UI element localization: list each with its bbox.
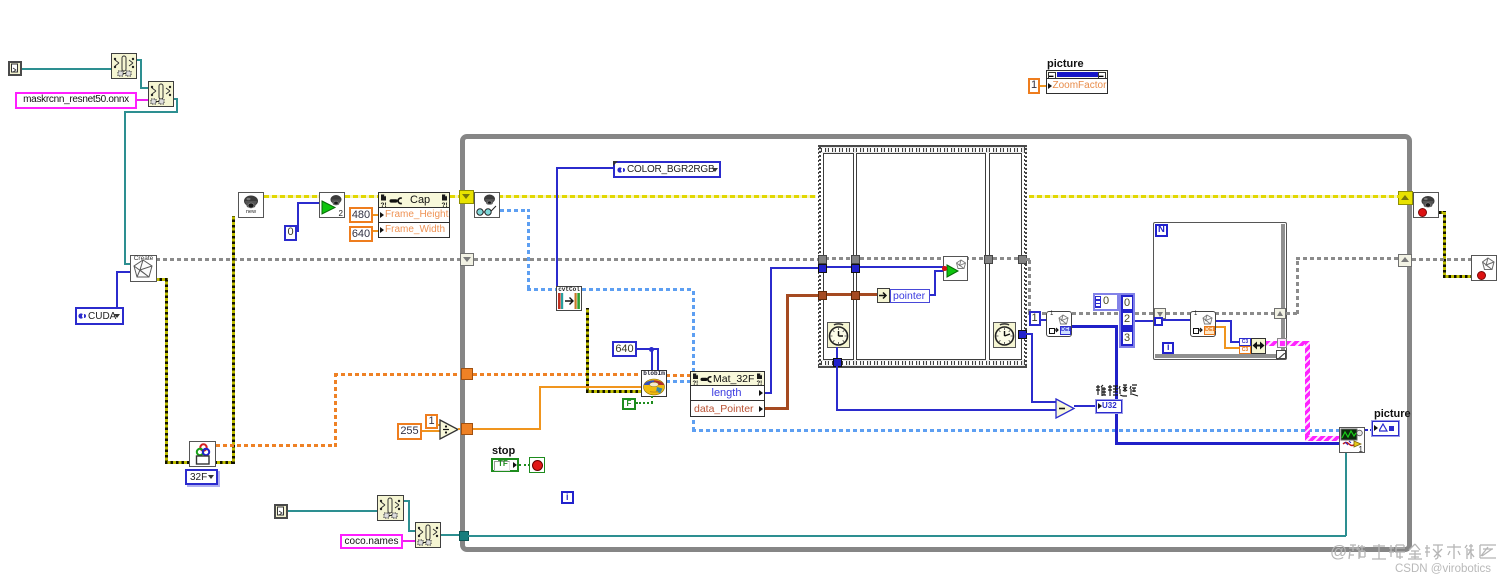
wire: blue subtract to U32 (1074, 405, 1096, 407)
array index constant 0 (1093, 293, 1119, 311)
wire: gray inside for loop (1166, 312, 1276, 315)
wire: dark-yellow R1 to R2 (1439, 211, 1446, 214)
indicator pointer (890, 289, 930, 303)
tunnel: teal in (459, 531, 469, 541)
film left serration (818, 146, 820, 366)
camera glasses (read) node (474, 192, 500, 218)
label 推理速度 (inference speed) (1094, 384, 1140, 397)
wire: blue array to for loop tunnel (1135, 320, 1155, 322)
enum constant COLOR_BGR2RGB (613, 161, 721, 178)
wire: teal from B2 down-left to Create (174, 98, 178, 100)
wire: gray error across sequence (825, 257, 1020, 260)
wire: pink to picture draw (1287, 341, 1308, 346)
wire: orange 480 to Frame_Height (373, 214, 380, 216)
wire: teal file to B3 (288, 510, 377, 512)
sequence frame 3 (989, 153, 1022, 361)
stop button (529, 457, 545, 473)
sequence frame 1 (823, 153, 855, 361)
clock node (frame 3) (993, 322, 1016, 348)
wire: yellow inside loop left segment (474, 195, 816, 198)
tunnel: blue hollow into for loop (1154, 317, 1163, 326)
picture draw node (1339, 427, 1365, 453)
wire: gray DEL1 out to for loop (1072, 312, 1156, 315)
wire: gray error inside loop to sequence (474, 258, 818, 261)
clock node (frame 1) (827, 322, 850, 348)
numeric constant 1 (zoom) (1028, 78, 1040, 94)
wire: dark-yellow cvtCol down to blob node (586, 308, 589, 392)
tunnel: yellow out (right) (1398, 191, 1413, 205)
tunnel: gray on seq borders (818, 255, 827, 264)
camera release node R1 (1413, 192, 1439, 218)
flat sequence structure (film strip) (815, 143, 1029, 370)
wire: yellow Cap to loop tunnel (450, 195, 463, 198)
wire: orange 255 to divide (422, 430, 440, 432)
watermark line 1 (1330, 541, 1500, 563)
wire: light-blue Mat_32F down to picture draw (692, 417, 695, 431)
wire: blue clock2 to subtract (1026, 333, 1033, 335)
wire: gray for loop out, up to right tunnel (1286, 312, 1299, 315)
wire: blue pointer to play2 (930, 294, 936, 296)
subtract node (1055, 398, 1076, 419)
array constant column 0 2 3 (1119, 293, 1135, 348)
wire: light-blue mat wire glasses->cvtCol (500, 209, 530, 212)
blobFromImage node (641, 370, 667, 397)
numeric constant 1 (425, 414, 438, 429)
wire: orange dashed right of blob to Mat_32F (666, 374, 692, 377)
DEL/forward node DEL1 (1046, 311, 1072, 337)
path node B4 (415, 522, 441, 548)
wire: teal inside loop to picture draw (468, 535, 1346, 537)
wire: blue into DEL2 (1162, 319, 1190, 321)
string constant maskrcnn_resnet50.onnx (15, 92, 137, 109)
wire: orange dashed inside loop to blob (473, 373, 643, 376)
pointer deref node (877, 288, 890, 303)
wire: orange solid divide to blob (473, 428, 541, 430)
path node B3 (377, 495, 404, 521)
wire: orange divide out to loop tunnel (458, 428, 463, 430)
file path constant (top-left) (8, 61, 22, 76)
label picture (top) (1047, 58, 1084, 70)
stop label (492, 445, 515, 457)
property node Cap (378, 192, 450, 238)
wire: teal B3 to B4 (404, 500, 409, 502)
tunnel: orange dashed in (461, 368, 473, 380)
stop TF control (491, 458, 519, 472)
film bottom rail (818, 366, 1028, 368)
indicator U32 (1096, 400, 1122, 413)
DEL/forward node DEL2 (1190, 311, 1216, 337)
indicator picture (1372, 421, 1399, 436)
cvtColor node (556, 286, 582, 311)
for loop border (1153, 222, 1287, 360)
ring constant 32F (185, 469, 218, 485)
wire: pink combiner to tunnel (1266, 341, 1280, 346)
tunnel: pink out of for loop (1277, 338, 1287, 348)
numeric constant 0 (camera index) (284, 225, 297, 241)
watermark line 2 (1395, 563, 1491, 575)
wire: brown pointer into sequence (825, 293, 878, 296)
tunnel: blue on seq bottom border (833, 358, 842, 367)
numeric constant 1 (index) (1029, 311, 1041, 326)
wire: orange dashed image wire 32F node to loop (216, 444, 336, 447)
wire: light-blue blob out to Mat_32F (666, 380, 692, 383)
wire: teal path wire from file constant to path node B1 (21, 68, 112, 70)
tunnel: orange divide in (461, 423, 473, 435)
wire: blue length into sequence to play2 (825, 266, 944, 268)
enum constant CUDA (75, 307, 124, 325)
wire: blue enum to cvtCol (556, 167, 613, 169)
while loop border (460, 134, 1412, 552)
numeric constant 255 (397, 423, 422, 440)
tunnel: brown on seq borders (818, 291, 827, 300)
model release node R2 (1471, 255, 1497, 281)
wire: teal from B1 to B2 (137, 59, 142, 61)
wire: gray seq out down to DEL1 (1026, 258, 1031, 261)
wire: blue 1 to DEL1 (1040, 319, 1046, 321)
wire: green dotted F to blob (636, 402, 653, 404)
wire: gray to R2 (1412, 258, 1471, 261)
film right serration (1025, 146, 1027, 366)
tunnel: yellow in (left) (459, 190, 474, 204)
wire: blue from 0 to play camera (296, 230, 299, 232)
wire: blue DEL2 to combiner (1216, 320, 1232, 322)
numeric constant 640 (349, 226, 373, 242)
forward/run node in sequence (943, 256, 968, 281)
path node B2 (build path) (148, 81, 174, 107)
tunnel: gray out of for loop (1274, 308, 1286, 319)
tunnel: gray into for loop (1154, 308, 1166, 319)
wire: yellow inside loop right segment (1029, 195, 1399, 198)
wire: yellow play->Cap (345, 195, 379, 198)
camera play (read frame) node (319, 192, 345, 218)
wire: brown data_Pointer out (765, 407, 789, 410)
wire: orange 1 to ZoomFactor (1040, 85, 1046, 87)
tunnel: gray in (left) (460, 253, 474, 266)
wire: light-blue cvtCol out to Mat_32F (582, 288, 694, 291)
corner fold (for loop auto-index) (1276, 350, 1286, 359)
property node picture/ZoomFactor (1046, 70, 1108, 94)
iteration terminal i (for) (1162, 342, 1174, 354)
boolean constant F (622, 398, 636, 410)
film top rail (818, 145, 1028, 147)
wire: dark blue dashed draw->picture indicator (1365, 429, 1373, 431)
wire: green dotted TF to stop button (519, 464, 530, 466)
path node B1 (Get Exe Dir) (111, 53, 137, 79)
wire: blue thick DEL1 to picture draw (1072, 325, 1118, 328)
sequence frame 2 (856, 153, 986, 361)
Create model node (130, 255, 157, 282)
wire: blue 640 to blob (two inputs) (637, 348, 653, 350)
numeric constant 640 (blob size) (612, 341, 637, 357)
combiner node C3 (1239, 338, 1266, 354)
IMAQ-like create 32F node (blobFromImage source) (189, 441, 216, 467)
loop count terminal N (1155, 224, 1168, 237)
file path constant (bottom) (274, 504, 288, 519)
iteration terminal i (while) (561, 491, 574, 504)
divide node (439, 419, 460, 440)
wire: blue from CUDA up to Create (116, 271, 118, 307)
string constant coco.names (340, 534, 403, 549)
label picture (right) (1374, 408, 1411, 420)
wire: gray error wire from Create to while loop (156, 258, 462, 261)
tunnel: gray out (right) (1398, 254, 1412, 267)
wire: orange DEL2 to combiner (1216, 326, 1226, 328)
wire: dark-yellow cluster wire Create down to 32F node (154, 278, 168, 281)
tunnel: blue on seq borders (818, 264, 827, 273)
numeric constant 480 (349, 207, 373, 223)
tunnel: blue clock2 out right border (1018, 330, 1027, 339)
wire: orange 640 to Frame_Width (373, 230, 380, 232)
wire: pink string wire to B2 (137, 99, 148, 101)
wire: yellow session wire new->play (264, 195, 319, 198)
property node Mat_32F (690, 371, 765, 417)
wire: blue clock1 down/out of sequence (836, 347, 838, 360)
camera new node (238, 192, 264, 218)
wire: teal B4 to loop tunnel (441, 534, 461, 536)
wire: pink coco.names to B4 (403, 540, 415, 542)
wire: blue length out, up and right to sequence (765, 392, 772, 394)
